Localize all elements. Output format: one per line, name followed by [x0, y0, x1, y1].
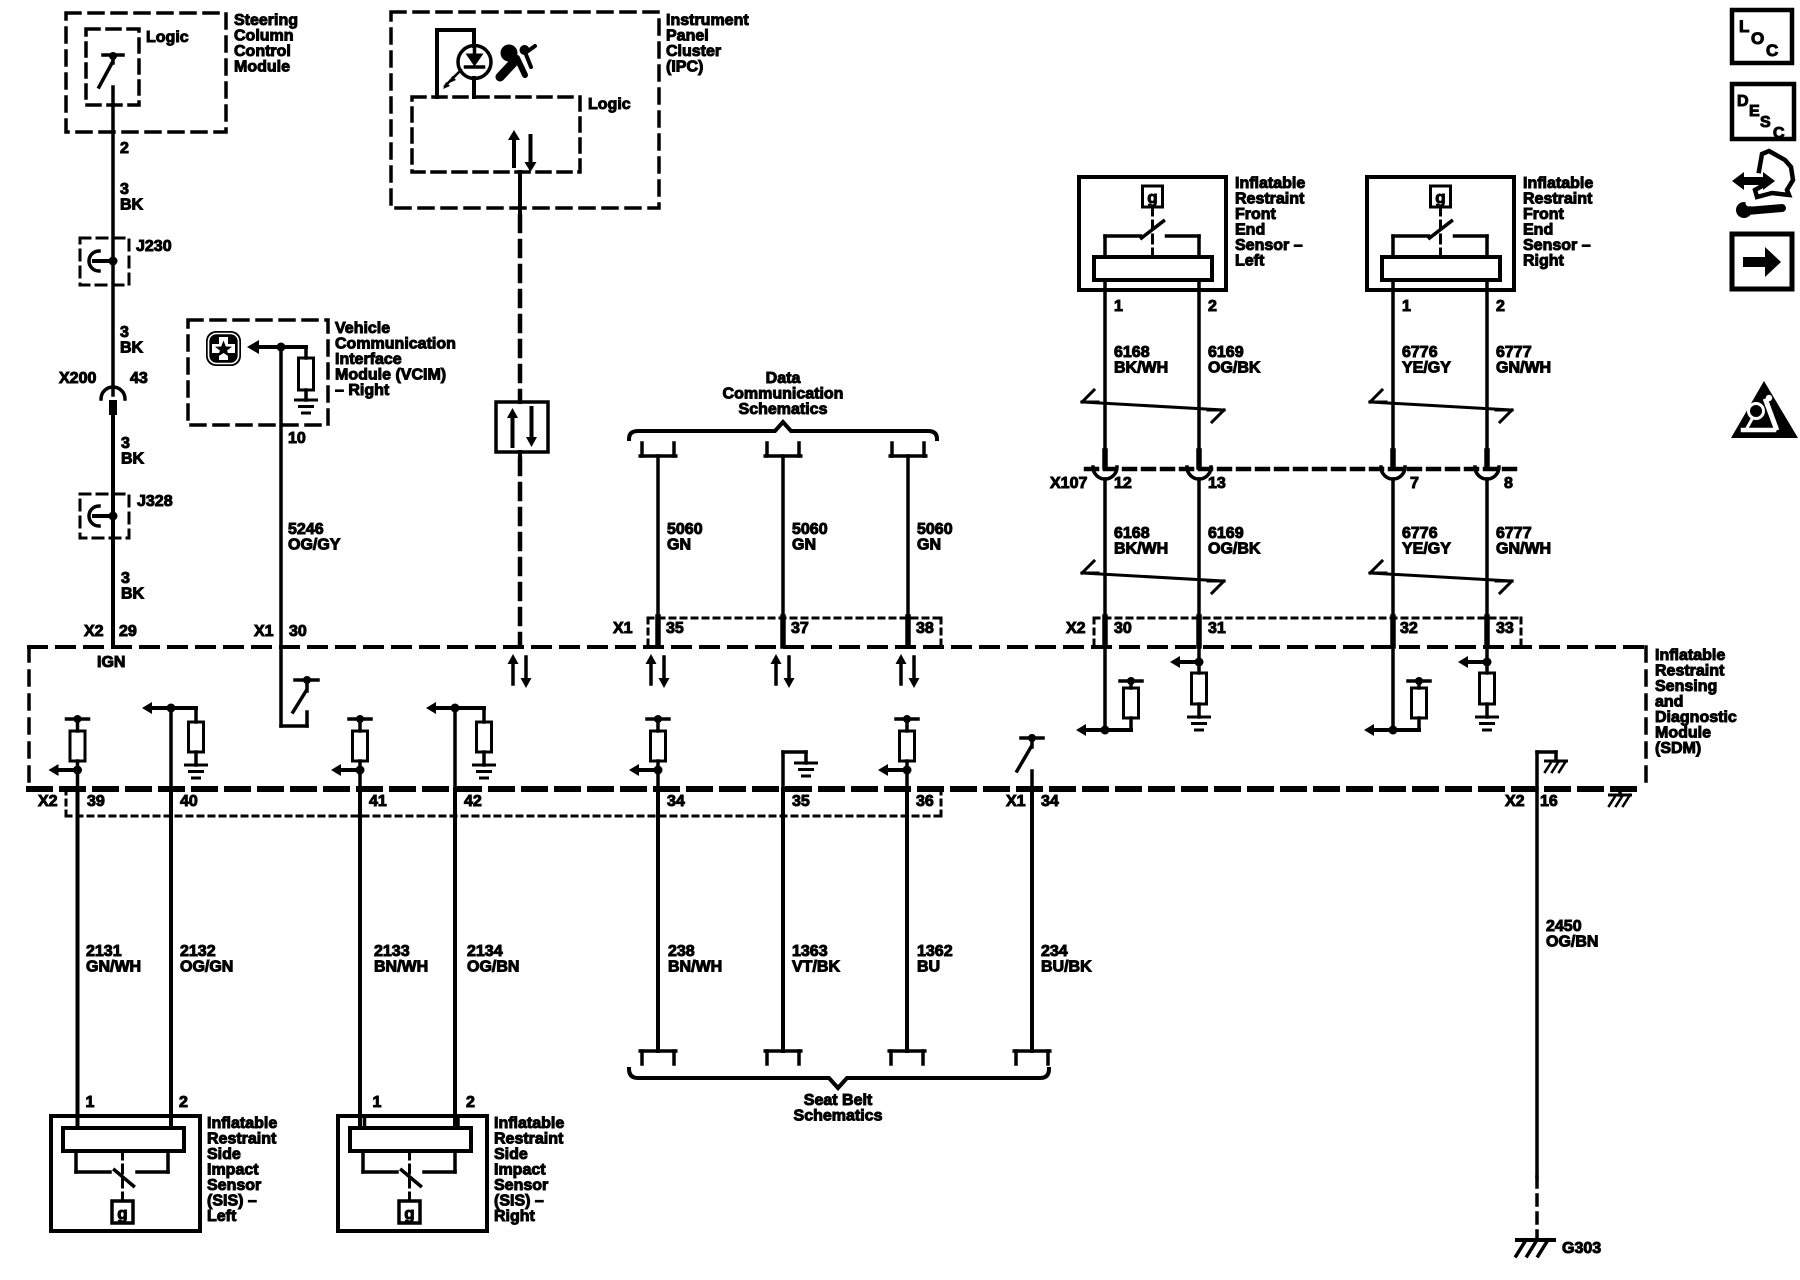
pins 1,2 Right: [1391, 280, 1395, 290]
serial data arrows inside IPC logic: [512, 138, 516, 166]
svg-text:YE/GY: YE/GY: [1402, 541, 1451, 558]
LED: airbag warning lamp: [458, 46, 491, 79]
svg-text:234: 234: [1041, 943, 1068, 960]
svg-text:Data: Data: [766, 370, 801, 387]
svg-text:X2: X2: [1066, 620, 1086, 637]
svg-text:Communication: Communication: [723, 386, 844, 403]
icon: forward arrow button: [1732, 234, 1792, 289]
svg-text:1362: 1362: [917, 943, 953, 960]
svg-text:Module: Module: [1655, 725, 1711, 742]
off-page connector (seat belt circuit): [640, 1051, 644, 1064]
sensor bridge Left: [1105, 234, 1141, 238]
svg-text:Impact: Impact: [494, 1162, 546, 1179]
svg-text:2: 2: [120, 140, 129, 157]
serial data arrows inside SDM at x=908: [899, 662, 903, 684]
svg-text:g: g: [1147, 188, 1157, 207]
wire: circuit 1362 SDM to seat belt: [905, 789, 909, 1051]
svg-text:X2: X2: [1505, 793, 1525, 810]
svg-text:BU/BK: BU/BK: [1041, 959, 1092, 976]
svg-text:BN/WH: BN/WH: [668, 959, 722, 976]
SDM internal: pin X2-16 chassis ground: [1535, 752, 1539, 789]
J328 connector symbol: [89, 506, 99, 526]
SDM internal: pin 40 resistor to ground: [152, 706, 196, 710]
dashed actuator link Right: [1439, 207, 1442, 257]
svg-text:X1: X1: [254, 623, 274, 640]
svg-text:Side: Side: [494, 1146, 528, 1163]
svg-text:3: 3: [121, 570, 130, 587]
wire: circuit 2133 SDM to SIS: [358, 789, 362, 1128]
svg-text:IGN: IGN: [97, 654, 125, 671]
SDM internal: pin X2-30 sense resistor: [1103, 647, 1107, 730]
module: Inflatable Restraint Side Impact Sensor - Right: [338, 1116, 487, 1231]
svg-text:Control: Control: [234, 43, 291, 60]
g symbol (squib) Left: [1143, 186, 1163, 207]
sensor element rectangle Right: [350, 1128, 471, 1151]
sensor bridge Right: [1393, 234, 1429, 238]
svg-text:OG/BK: OG/BK: [1208, 360, 1261, 377]
pins 1,2 Left: [1103, 280, 1107, 290]
sensor bridge Right: [361, 1151, 365, 1172]
svg-text:O: O: [1751, 29, 1764, 48]
svg-text:Inflatable: Inflatable: [1235, 175, 1305, 192]
icon: LOC button: [1732, 10, 1792, 63]
svg-text:Restraint: Restraint: [494, 1131, 564, 1148]
svg-text:VT/BK: VT/BK: [792, 959, 840, 976]
svg-text:2131: 2131: [86, 943, 122, 960]
svg-text:Module (VCIM): Module (VCIM): [335, 367, 446, 384]
wire: circuit 6169 sensor to X107: [1197, 290, 1201, 451]
logic box inside SCCM: [86, 29, 139, 105]
off-page connector (data bus wire 2): [765, 443, 769, 456]
resistor inside VCIM: [304, 347, 308, 358]
brace: seat belt schematics: [629, 1069, 1049, 1088]
SDM internal: pin 34 pull-up resistor and arrow: [647, 717, 669, 721]
svg-text:Communication: Communication: [335, 336, 456, 353]
wire: circuit (lower) X107 to SDM: [1485, 479, 1489, 617]
svg-text:(SIS) –: (SIS) –: [494, 1193, 544, 1210]
svg-text:Front: Front: [1235, 206, 1277, 223]
module: Inflatable Restraint Front End Sensor - Right: [1367, 177, 1514, 290]
svg-text:6777: 6777: [1496, 344, 1532, 361]
svg-text:GN: GN: [917, 537, 941, 554]
ground inside VCIM: [296, 399, 317, 402]
sensor bridge Left: [74, 1151, 78, 1172]
dashed actuator link Right: [408, 1151, 411, 1201]
svg-text:GN/WH: GN/WH: [1496, 541, 1551, 558]
svg-text:Schematics: Schematics: [794, 1108, 883, 1125]
wire: circuit 2132 SDM to SIS: [169, 789, 173, 1128]
J230 connector symbol: [89, 251, 99, 271]
wire: serial data circuit 5060 GN #1: [656, 456, 660, 617]
SDM internal: pin 35 ground: [781, 752, 785, 789]
connector X2 dotted strip (pins 39-42,34,35,36): [66, 815, 941, 818]
wire: circuit (lower) X107 to SDM: [1103, 479, 1107, 617]
SDM internal: pin 39 pull-up resistor and arrow: [67, 717, 89, 721]
OnStar logo inside VCIM: [206, 331, 241, 366]
wire: serial data circuit 5060 GN #2: [781, 456, 785, 617]
svg-text:X1: X1: [1006, 793, 1026, 810]
connector X1 dotted strip (pins 35,37,38): [648, 617, 941, 620]
svg-text:12: 12: [1114, 475, 1132, 492]
wire: X200-43 to SDM X2-29: [111, 415, 115, 646]
svg-text:g: g: [117, 1204, 127, 1223]
svg-text:Diagnostic: Diagnostic: [1655, 709, 1737, 726]
twisted pair marker upper left: [1082, 402, 1224, 410]
svg-text:6776: 6776: [1402, 525, 1438, 542]
airbag pictograph (person with airbag): [501, 45, 518, 62]
module: Instrument Panel Cluster (IPC) dashed box: [391, 12, 659, 208]
svg-text:G303: G303: [1562, 1240, 1601, 1257]
svg-text:OG/BN: OG/BN: [467, 959, 519, 976]
module: Inflatable Restraint Sensing and Diagnostic Module (SDM) dashed box: [29, 645, 1646, 649]
wire: circuit 234 SDM to seat belt: [1030, 789, 1034, 1051]
sensor element rectangle Left: [63, 1128, 184, 1151]
svg-text:5246: 5246: [288, 521, 324, 538]
svg-text:(IPC): (IPC): [666, 59, 703, 76]
svg-text:41: 41: [369, 793, 387, 810]
svg-text:32: 32: [1400, 620, 1418, 637]
svg-text:43: 43: [130, 370, 148, 387]
svg-text:Sensor: Sensor: [207, 1177, 261, 1194]
wire: circuit 6777 sensor to X107: [1485, 290, 1489, 451]
svg-text:2132: 2132: [180, 943, 216, 960]
icon: DESC button: [1732, 84, 1794, 139]
svg-text:Module: Module: [234, 59, 290, 76]
svg-text:Interface: Interface: [335, 351, 402, 368]
connector X107 terminal pin: [1102, 451, 1108, 467]
svg-text:Restraint: Restraint: [1655, 663, 1725, 680]
SDM internal: pin X2-32 sense resistor: [1391, 647, 1395, 730]
wire: SCCM pin 2 to SDM X2-29, circuit 3 BK: [111, 87, 115, 395]
svg-text:OG/GN: OG/GN: [180, 959, 233, 976]
svg-text:42: 42: [464, 793, 482, 810]
airbag indicator LED circuit loop: [437, 28, 474, 32]
wire: serial data circuit 5060 GN #3: [906, 456, 910, 617]
twisted pair marker upper right: [1370, 402, 1512, 410]
connector X107 terminal pin: [1390, 451, 1396, 467]
SDM internal: switch at X1-34: [1021, 736, 1043, 740]
svg-text:38: 38: [916, 620, 934, 637]
svg-text:5060: 5060: [792, 521, 828, 538]
svg-text:C: C: [1773, 125, 1785, 142]
svg-text:GN/WH: GN/WH: [1496, 360, 1551, 377]
svg-text:30: 30: [289, 623, 307, 640]
switch inside SCCM logic: [103, 53, 123, 57]
svg-text:34: 34: [667, 793, 685, 810]
svg-text:Restraint: Restraint: [207, 1131, 277, 1148]
svg-text:Impact: Impact: [207, 1162, 259, 1179]
svg-text:Sensing: Sensing: [1655, 678, 1717, 695]
svg-text:Left: Left: [207, 1208, 237, 1225]
svg-text:1: 1: [86, 1094, 95, 1111]
svg-text:Schematics: Schematics: [739, 401, 828, 418]
svg-text:8: 8: [1504, 475, 1513, 492]
svg-text:35: 35: [666, 620, 684, 637]
svg-text:and: and: [1655, 694, 1683, 711]
svg-text:D: D: [1737, 93, 1749, 110]
LED light emission arrows: [451, 70, 461, 80]
switch blade Right: [1430, 221, 1452, 238]
svg-text:2: 2: [466, 1094, 475, 1111]
svg-text:Logic: Logic: [146, 29, 189, 46]
wire: VCIM pin 10 to SDM X1-30, circuit 5246 OG/GY: [279, 347, 283, 646]
svg-text:Cluster: Cluster: [666, 43, 721, 60]
off-page connector (data bus wire 1): [640, 443, 644, 456]
SDM internal: pin 41 pull-up resistor and arrow: [349, 717, 371, 721]
svg-text:(SIS) –: (SIS) –: [207, 1193, 257, 1210]
dashed actuator link Left: [121, 1151, 124, 1201]
svg-text:3: 3: [120, 324, 129, 341]
svg-text:3: 3: [120, 181, 129, 198]
wire: circuit 2450 OG/BN SDM ground: [1535, 789, 1539, 1177]
svg-text:Inflatable: Inflatable: [1655, 647, 1725, 664]
inline splice J230 (dashed box): [80, 238, 129, 285]
svg-text:10: 10: [288, 430, 306, 447]
arrow to OnStar logo (serial data): [247, 340, 259, 354]
svg-text:1: 1: [1114, 298, 1123, 315]
svg-text:S: S: [1760, 114, 1771, 131]
pins into box Left: [76, 1116, 80, 1128]
svg-text:Right: Right: [1523, 253, 1565, 270]
svg-text:Restraint: Restraint: [1523, 191, 1593, 208]
svg-text:BK/WH: BK/WH: [1114, 360, 1168, 377]
svg-text:J328: J328: [137, 493, 173, 510]
off-page connector (seat belt circuit): [1014, 1051, 1018, 1064]
svg-text:6168: 6168: [1114, 525, 1150, 542]
brace: data communication schematics: [629, 422, 937, 439]
svg-text:3: 3: [121, 435, 130, 452]
svg-text:L: L: [1739, 17, 1749, 36]
SDM internal: pin 42 resistor to ground: [436, 706, 484, 710]
switch blade Left: [115, 1170, 134, 1186]
svg-text:2: 2: [1496, 298, 1505, 315]
connector X2 dotted strip (pins 30-33): [1094, 617, 1521, 620]
svg-text:Right: Right: [494, 1208, 536, 1225]
svg-text:OG/BK: OG/BK: [1208, 541, 1261, 558]
switch inside SDM (ignition sense X1-30): [279, 647, 283, 726]
svg-text:GN: GN: [792, 537, 816, 554]
svg-text:End: End: [1235, 222, 1265, 239]
svg-text:Inflatable: Inflatable: [1523, 175, 1593, 192]
svg-text:29: 29: [119, 623, 137, 640]
svg-text:Sensor –: Sensor –: [1235, 237, 1303, 254]
svg-text:X107: X107: [1050, 475, 1087, 492]
svg-text:2450: 2450: [1546, 918, 1582, 935]
svg-text:5060: 5060: [917, 521, 953, 538]
svg-text:35: 35: [792, 793, 810, 810]
SDM internal: pin X2-33 resistor to ground: [1485, 647, 1489, 662]
switch blade Right: [402, 1170, 421, 1186]
svg-text:36: 36: [916, 793, 934, 810]
wire: IPC serial data (dashed) to SDM: [518, 172, 522, 216]
svg-text:Instrument: Instrument: [666, 12, 749, 29]
node: VCIM pin10 junction: [277, 343, 286, 352]
svg-text:5060: 5060: [667, 521, 703, 538]
serial data arrows inside SDM at x=783: [774, 662, 778, 684]
svg-text:End: End: [1523, 222, 1553, 239]
svg-text:BK/WH: BK/WH: [1114, 541, 1168, 558]
connector X107 terminal pin: [1484, 451, 1490, 467]
SDM internal: pin 36 pull-up resistor and arrow: [896, 717, 918, 721]
svg-text:BK: BK: [120, 340, 144, 357]
chassis ground on SDM case: [1618, 789, 1622, 795]
svg-text:X1: X1: [613, 620, 633, 637]
svg-text:2: 2: [179, 1094, 188, 1111]
wire: circuit (lower) X107 to SDM: [1391, 479, 1395, 617]
sensor element rectangle Right: [1382, 257, 1500, 280]
svg-text:E: E: [1749, 103, 1760, 120]
svg-text:g: g: [1435, 188, 1445, 207]
svg-text:g: g: [404, 1204, 414, 1223]
svg-text:40: 40: [180, 793, 198, 810]
wire: circuit 2134 SDM to SIS: [453, 789, 457, 1128]
twisted pair marker lower left: [1082, 573, 1224, 581]
svg-text:2134: 2134: [467, 943, 503, 960]
svg-text:Left: Left: [1235, 253, 1265, 270]
svg-text:39: 39: [87, 793, 105, 810]
twisted pair marker lower right: [1370, 573, 1512, 581]
dashed actuator link Left: [1151, 207, 1154, 257]
svg-text:Vehicle: Vehicle: [335, 320, 390, 337]
wire: circuit 6168 sensor to X107: [1103, 290, 1107, 451]
svg-text:Logic: Logic: [588, 96, 631, 113]
off-page connector (seat belt circuit): [889, 1051, 893, 1064]
svg-text:BU: BU: [917, 959, 940, 976]
wire: circuit 2131 SDM to SIS: [76, 789, 80, 1128]
g symbol (squib) Right: [399, 1201, 420, 1223]
svg-text:YE/GY: YE/GY: [1402, 360, 1451, 377]
svg-text:Steering: Steering: [234, 12, 298, 29]
module: Inflatable Restraint Side Impact Sensor - Left: [51, 1116, 200, 1231]
pins into box Right: [363, 1116, 367, 1128]
switch blade Left: [1142, 221, 1164, 238]
svg-text:Column: Column: [234, 28, 294, 45]
svg-text:Inflatable: Inflatable: [494, 1115, 564, 1132]
serial data arrows inside SDM at x=520: [511, 662, 515, 684]
svg-text:OG/BN: OG/BN: [1546, 934, 1598, 951]
svg-text:BN/WH: BN/WH: [374, 959, 428, 976]
icon: airbag warning triangle: [1731, 381, 1798, 438]
svg-text:6776: 6776: [1402, 344, 1438, 361]
svg-text:16: 16: [1540, 793, 1558, 810]
connector X107 dotted line: [1086, 467, 1519, 472]
svg-text:X200: X200: [59, 370, 96, 387]
SDM internal: pin X2-31 resistor to ground: [1197, 647, 1201, 662]
svg-text:BK: BK: [121, 586, 145, 603]
svg-text:Side: Side: [207, 1146, 241, 1163]
serial data arrows inside SDM at x=658: [649, 662, 653, 684]
ground G303: [1517, 1238, 1554, 1242]
inline splice J328 (dashed box): [80, 494, 129, 538]
connector X107 terminal pin: [1196, 451, 1202, 467]
svg-text:Restraint: Restraint: [1235, 191, 1305, 208]
svg-text:13: 13: [1208, 475, 1226, 492]
svg-text:6777: 6777: [1496, 525, 1532, 542]
svg-text:C: C: [1766, 41, 1778, 60]
svg-text:GN: GN: [667, 537, 691, 554]
svg-text:238: 238: [668, 943, 695, 960]
off-page connector (data bus wire 3): [890, 443, 894, 456]
svg-text:Sensor: Sensor: [494, 1177, 548, 1194]
svg-text:33: 33: [1496, 620, 1514, 637]
svg-text:6168: 6168: [1114, 344, 1150, 361]
svg-text:J230: J230: [136, 238, 172, 255]
wire: circuit (lower) X107 to SDM: [1197, 479, 1201, 617]
svg-text:BK: BK: [120, 197, 144, 214]
serial data connector box symbol: [518, 398, 522, 402]
svg-text:6169: 6169: [1208, 525, 1244, 542]
svg-text:Panel: Panel: [666, 28, 709, 45]
svg-text:7: 7: [1410, 475, 1419, 492]
svg-text:Inflatable: Inflatable: [207, 1115, 277, 1132]
icon: related information (arrows and wrench): [1732, 172, 1744, 190]
wire: circuit 6776 sensor to X107: [1391, 290, 1395, 451]
svg-text:6169: 6169: [1208, 344, 1244, 361]
svg-text:– Right: – Right: [335, 382, 390, 399]
svg-text:30: 30: [1114, 620, 1132, 637]
svg-text:X2: X2: [84, 623, 104, 640]
wire: circuit 1363 SDM to seat belt: [781, 789, 785, 1051]
svg-text:2: 2: [1208, 298, 1217, 315]
wire: circuit 238 SDM to seat belt: [656, 789, 660, 1051]
module: Inflatable Restraint Front End Sensor - Left: [1079, 177, 1226, 290]
svg-text:1363: 1363: [792, 943, 828, 960]
svg-text:BK: BK: [121, 451, 145, 468]
off-page connector (seat belt circuit): [765, 1051, 769, 1064]
module: Steering Column Control Module (dashed box): [66, 13, 226, 132]
svg-text:X2: X2: [38, 793, 58, 810]
svg-text:GN/WH: GN/WH: [86, 959, 141, 976]
svg-text:31: 31: [1208, 620, 1226, 637]
svg-text:Front: Front: [1523, 206, 1565, 223]
svg-text:34: 34: [1041, 793, 1059, 810]
sensor element rectangle Left: [1094, 257, 1212, 280]
svg-text:37: 37: [791, 620, 809, 637]
svg-text:OG/GY: OG/GY: [288, 537, 341, 554]
svg-text:Seat Belt: Seat Belt: [804, 1092, 873, 1109]
module: Vehicle Communication Interface Module (VCIM) dashed box: [188, 320, 328, 425]
svg-text:2133: 2133: [374, 943, 410, 960]
g symbol (squib) Right: [1431, 186, 1451, 207]
svg-text:1: 1: [373, 1094, 382, 1111]
svg-text:Sensor –: Sensor –: [1523, 237, 1591, 254]
svg-text:1: 1: [1402, 298, 1411, 315]
logic box inside IPC: [412, 97, 580, 172]
g symbol (squib) Left: [112, 1201, 133, 1223]
svg-text:(SDM): (SDM): [1655, 740, 1701, 757]
